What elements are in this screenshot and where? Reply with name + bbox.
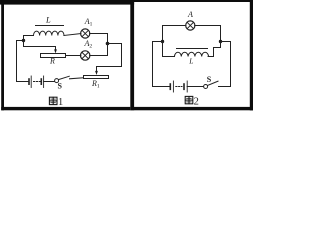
node: fig2 left junction dot [161, 40, 164, 43]
wire: switch to fig2 right outer wire [219, 86, 231, 88]
battery B2 dashed middle [176, 86, 182, 88]
figure 2 frame bottom border [134, 107, 253, 110]
wire: A2 branch from left node down [24, 41, 56, 50]
arrow onto resistor R [54, 49, 57, 53]
figure 2 frame top border [134, 0, 253, 2]
switch S2 blade [208, 81, 219, 85]
switch S1 pivot circle [55, 79, 59, 83]
wire: inductor right lead up to right node [208, 42, 220, 57]
wire: fig2 bottom left to battery [153, 86, 171, 88]
node: fig2 right junction dot [219, 40, 222, 43]
lamp A2 cross [82, 52, 89, 59]
arrow onto rheostat R1 [95, 71, 98, 75]
svg-text:1: 1 [58, 97, 63, 108]
battery B1 positive plate (left cell) [30, 76, 32, 88]
inductor L2 core bar [177, 48, 208, 50]
wire: R to lamp A2 [66, 55, 81, 57]
wire: fig1 left node horizontal stub [17, 40, 24, 42]
label 图 (fig2 caption glyph) [185, 96, 193, 103]
wire: fig1 node to rheostat R1 wiper [97, 44, 122, 72]
node: fig1 right junction dot [106, 42, 110, 46]
svg-text:A1: A1 [84, 17, 93, 28]
switch S2 pivot circle [204, 85, 208, 89]
node: fig1 left junction dot [22, 39, 25, 42]
wire: coil to lamp A1 [64, 34, 81, 36]
battery B2 negative plate (right cell) [183, 84, 185, 89]
inductor L1 coil [34, 31, 64, 35]
figure 1 frame left border [1, 0, 4, 110]
switch S1 blade [59, 76, 70, 79]
svg-text:2: 2 [194, 96, 199, 107]
wire: battery to switch S2 [187, 86, 203, 88]
wire: fig1 node up to inductor lead [24, 36, 34, 41]
battery B2 positive plate (right cell) [186, 81, 188, 92]
svg-text:S: S [58, 82, 63, 91]
svg-text:A: A [187, 10, 193, 19]
wire: lamp A1 to right node [90, 34, 108, 44]
wire: lamp A2 to right node [90, 44, 108, 56]
label 图 (fig1 caption glyph) [49, 97, 57, 104]
lamp A1 cross [82, 30, 88, 36]
inductor L2 coil [175, 52, 209, 56]
lamp A2 circle [81, 51, 90, 60]
wire: switch to rheostat R1 [70, 78, 84, 79]
wire: lamp A to fig2 right node [195, 26, 221, 42]
lamp A cross [187, 22, 193, 28]
wire: fig1 left vertical (node to battery) [17, 41, 29, 82]
figure 1 frame top border [0, 0, 134, 5]
svg-text:L: L [45, 14, 51, 24]
battery B1 dashed middle [34, 81, 41, 83]
wire: battery to switch S1 [44, 81, 55, 83]
battery B1 positive plate (right cell) [43, 76, 45, 88]
rheostat R1 body [84, 76, 109, 79]
wire: fig2 left node down to inductor [163, 42, 175, 57]
figure 1 frame bottom border [1, 107, 130, 110]
battery B2 negative plate (left cell) [169, 84, 171, 89]
shared divider border between figure boxes [130, 0, 134, 110]
svg-text:S: S [207, 75, 212, 84]
inductor L1 core bar [36, 25, 64, 27]
figure 2 frame right border [250, 0, 253, 110]
svg-text:A2: A2 [84, 39, 93, 50]
resistor R body [41, 54, 66, 58]
svg-text:R1: R1 [91, 79, 100, 90]
lamp A circle [186, 21, 195, 30]
wire: fig2 right node to outer right wire [221, 42, 231, 87]
wire: fig2 top branch to lamp A [163, 26, 186, 42]
battery B2 positive plate (left cell) [172, 81, 174, 92]
lamp A1 circle [81, 29, 90, 38]
battery B1 negative plate (left cell) [28, 79, 30, 84]
wire: fig2 left node to outer left wire [153, 42, 163, 87]
svg-text:R: R [49, 57, 55, 66]
battery B1 negative plate (right cell) [40, 79, 42, 84]
svg-text:L: L [188, 56, 193, 65]
